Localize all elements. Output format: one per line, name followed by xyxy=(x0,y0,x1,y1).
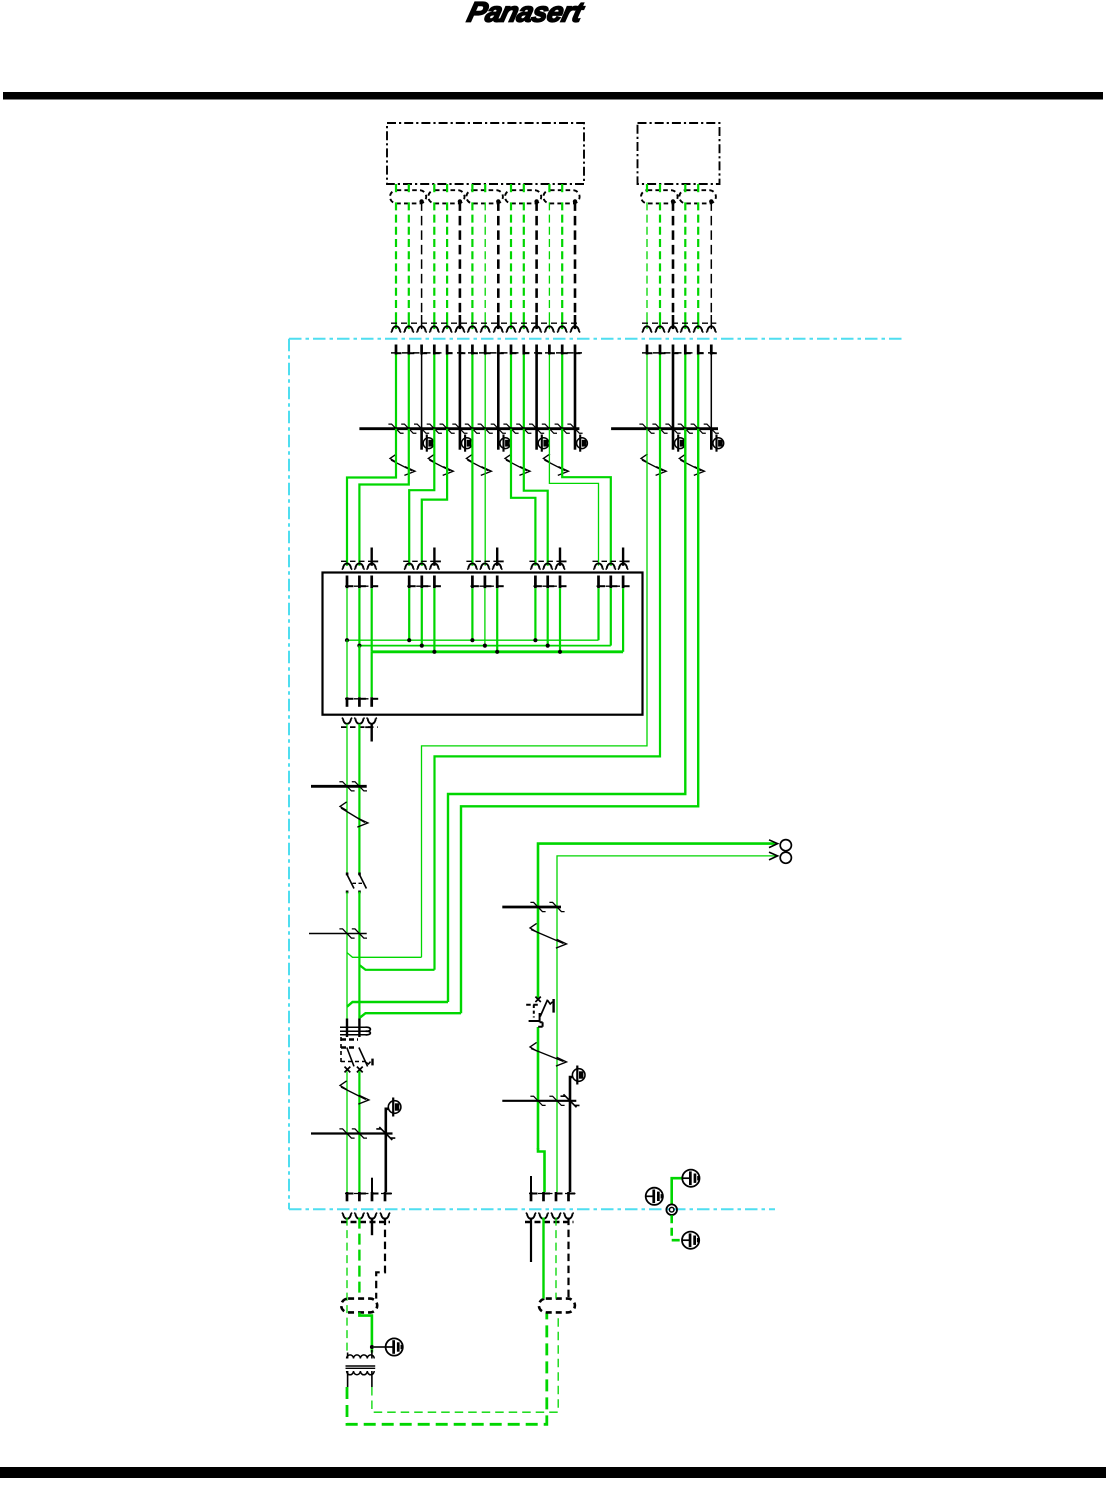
pin w10 below frame border xyxy=(511,345,517,355)
crossing line CL6 xyxy=(502,1100,576,1102)
socket cap w11 at frame border xyxy=(519,326,530,332)
crossing line CL1 left xyxy=(359,427,579,430)
top horizontal rule xyxy=(3,92,1103,100)
box connector group 1 tie dashed xyxy=(341,560,378,562)
pin tie dashed line right xyxy=(642,352,718,354)
harness wire w21 solid segment xyxy=(710,315,712,329)
breaker coil hook xyxy=(366,1027,371,1035)
wire w10 to crossing line xyxy=(510,355,512,429)
pin w9 below frame border xyxy=(498,345,504,355)
wire jog right column xyxy=(538,1148,545,1192)
wire route w2 to box group xyxy=(409,429,434,566)
cable wire L4 (black dashed) xyxy=(376,1218,385,1299)
harness wire w17 dashed segment xyxy=(659,202,661,315)
breaker coil lines xyxy=(340,1027,366,1035)
socket cap w16 at frame border xyxy=(642,326,653,332)
control unit box (dash-dot outline) xyxy=(387,123,584,184)
disconnect switch S2 xyxy=(428,454,453,476)
harness wire w12 solid segment xyxy=(535,315,538,329)
harness wire w14 dashed segment xyxy=(561,202,563,315)
box connector group 5 pins xyxy=(599,576,630,589)
pin w3 below frame border xyxy=(422,345,428,355)
box connector group 1 black stub xyxy=(372,548,379,566)
pin w19 below frame border xyxy=(685,345,691,355)
box connector group 4 black stub xyxy=(560,548,567,566)
box connector group 4 pins xyxy=(535,576,566,589)
solenoid SL2 xyxy=(460,429,472,452)
tick CL5 C xyxy=(530,902,545,911)
breaker x mark A xyxy=(345,1067,351,1073)
box connector group 3 black stub xyxy=(497,548,504,566)
bottom horizontal rule xyxy=(0,1467,1106,1478)
disconnect switch S3 xyxy=(466,454,491,476)
plug oval left (dashed) xyxy=(341,1299,377,1313)
tick at CL1 w16 xyxy=(639,424,654,433)
wire w15 to crossing line xyxy=(574,355,577,429)
wire w11 to crossing line xyxy=(523,355,525,429)
wire route w1 to box group xyxy=(359,429,408,566)
disconnect switch S11 xyxy=(530,1042,567,1066)
box connector group 4 pin tie dashed xyxy=(533,585,567,587)
box wire g3p2 xyxy=(484,588,486,645)
socket cap w10 at frame border xyxy=(506,326,517,332)
breaker contact blade 1 xyxy=(347,1048,354,1067)
pin w14 below frame border xyxy=(562,345,568,355)
transformer T1 core xyxy=(346,1366,376,1368)
contactor contact K1b xyxy=(358,873,366,894)
box connector group 5 pin tie dashed xyxy=(597,585,631,587)
harness wire w11 dashed segment xyxy=(523,202,525,315)
wire w16 to crossing line xyxy=(646,355,648,429)
breaker hook right xyxy=(366,1059,373,1066)
plug oval right (dashed) xyxy=(539,1299,575,1313)
disconnect switch S4 xyxy=(505,454,530,476)
box bottom connector tie dashed xyxy=(345,698,379,700)
tick at CL1 w20 xyxy=(691,424,706,433)
breaker x mark B xyxy=(357,1067,363,1073)
box connector group 2 pins xyxy=(409,576,441,589)
box wire g1p2 xyxy=(358,588,360,645)
disconnect switch S5 xyxy=(543,454,568,476)
solenoid SL5 xyxy=(575,429,587,452)
wire stubs box-to-connector xyxy=(396,184,698,192)
socket cap w14 at frame border xyxy=(557,326,568,332)
tick CL3 B xyxy=(352,929,367,938)
pin w8 below frame border xyxy=(485,345,491,355)
pin w13 below frame border xyxy=(549,345,555,355)
tick CL4 B xyxy=(352,1129,367,1138)
wire w9 to crossing line xyxy=(497,355,500,429)
box wire g5p1 xyxy=(597,588,599,640)
bus0 dot g1 xyxy=(345,638,349,642)
junction dot CN7 xyxy=(709,199,713,203)
tick CL6 C xyxy=(530,1096,545,1105)
feeder wire A mid xyxy=(346,892,348,1019)
junction dot CN2 xyxy=(458,199,462,203)
harness wire w20 solid segment xyxy=(697,315,699,329)
cable wire R4 (black dashed) xyxy=(567,1218,569,1299)
tick at CL1 w15 xyxy=(567,424,582,433)
pin w16 below frame border xyxy=(647,345,653,355)
solenoid SL1 xyxy=(422,429,434,452)
route h3 xyxy=(448,429,685,1002)
harness wire w8 dashed segment xyxy=(484,202,486,315)
earth link lower dashed xyxy=(672,1215,682,1240)
box wire g5p2 xyxy=(610,588,612,645)
box connector group 1 pin tie dashed xyxy=(345,585,379,587)
bottom connector R pins xyxy=(531,1192,575,1201)
contactor link dashed xyxy=(353,882,363,884)
wire w6 to crossing line xyxy=(459,355,462,429)
crossing line CL4 xyxy=(311,1132,393,1134)
Panasert logo xyxy=(464,0,587,28)
bottom connector R stub pin1 xyxy=(530,1176,532,1192)
connector CN4 (dashed oval) xyxy=(505,190,541,203)
tick CL6 D xyxy=(549,1096,564,1105)
earth ground G4 xyxy=(682,1232,699,1249)
wire route w3 to box group xyxy=(422,429,447,566)
harness wire w6 dashed segment xyxy=(459,201,462,315)
crossing line CL1 right xyxy=(611,427,718,430)
box wire g2p3 xyxy=(433,588,435,652)
box bottom connector socket cups xyxy=(342,718,377,724)
bus B xyxy=(359,645,610,647)
breaker wire stubs xyxy=(347,1019,359,1038)
bottom connector L tie dashed xyxy=(345,1193,392,1195)
wire w2 to crossing line xyxy=(408,355,410,429)
harness wire w13 solid segment xyxy=(548,315,550,329)
tick at CL1 w6 xyxy=(452,424,467,433)
wire route w0 to box group xyxy=(347,429,396,566)
harness wire w7 dashed segment xyxy=(471,202,473,315)
tick at CL1 w9 xyxy=(491,424,506,433)
junction dot CN6 xyxy=(671,199,675,203)
junction dot CN1 xyxy=(419,199,423,203)
harness wire w1 dashed segment xyxy=(395,202,397,315)
tie line above frame sockets right xyxy=(642,322,716,324)
harness wire w18 solid segment xyxy=(672,315,675,329)
crossing line CL5 xyxy=(502,906,561,909)
tick at CL1 w14 xyxy=(555,424,570,433)
magnet valve MV2 xyxy=(572,1066,585,1085)
wire route w7 to box group xyxy=(562,429,611,566)
transformer T1 primary winding xyxy=(347,1355,375,1359)
harness wire w20 dashed segment xyxy=(697,202,699,315)
pin w21 below frame border xyxy=(711,345,717,355)
bus1 dot g3 xyxy=(483,644,487,648)
box wire g3p1 xyxy=(471,588,473,640)
output terminal ring 1 xyxy=(780,840,791,851)
bus C (thick) xyxy=(372,650,623,653)
black branch left xyxy=(386,1109,388,1192)
junction dot CN3 xyxy=(496,199,500,203)
frame border bottom (cyan dash-dot) xyxy=(289,1208,775,1210)
cable wire L1 (thin green dashed) xyxy=(346,1218,348,1352)
tap to ground line xyxy=(374,1346,386,1348)
tick at CL1 w1 xyxy=(388,424,403,433)
harness wire w18 dashed segment xyxy=(672,201,675,315)
bottom connector R tie dashed 2 xyxy=(525,1221,574,1223)
pin w17 below frame border xyxy=(660,345,666,355)
harness wire w2 dashed segment xyxy=(408,202,410,315)
output route h5 xyxy=(538,844,776,999)
wire route w6 to box group xyxy=(549,429,598,566)
box connector group 1 pins xyxy=(347,576,378,589)
socket cap w19 at frame border xyxy=(680,326,691,332)
secondary cable thin dashed xyxy=(372,1312,558,1412)
box wire g4p3 xyxy=(559,588,561,652)
junction j2 xyxy=(359,965,434,970)
socket cap w13 at frame border xyxy=(544,326,555,332)
wire w13 to crossing line xyxy=(548,355,550,429)
bus1 dot g2 xyxy=(420,644,424,648)
pin w6 below frame border xyxy=(460,345,466,355)
bus A (thin) xyxy=(347,639,599,641)
harness wire w5 dashed segment xyxy=(446,202,448,315)
bus1 dot g4 xyxy=(546,644,550,648)
disconnect switch S9 xyxy=(340,1081,369,1104)
feeder wire B upper xyxy=(358,724,360,874)
tick at CL1 w17 xyxy=(652,424,667,433)
tick at CL1 w18 xyxy=(665,424,680,433)
wire w18 to crossing line xyxy=(672,355,675,429)
box connector group 1 socket caps xyxy=(342,563,377,569)
box connector group 4 tie dashed xyxy=(529,560,566,562)
relay unit box (solid outline) xyxy=(323,573,643,715)
contactor contact K1a xyxy=(346,873,354,894)
box wire g5p3 xyxy=(622,588,624,652)
box wire g1p1 xyxy=(346,588,348,640)
wire w8 to crossing line xyxy=(484,355,486,429)
tick at CL1 w13 xyxy=(542,424,557,433)
frame border top (cyan dash-dot) xyxy=(289,338,903,340)
tick at CL1 w21 xyxy=(704,424,719,433)
crossing line CL2 xyxy=(311,785,367,788)
harness wire w7 solid segment xyxy=(471,315,473,329)
socket cap w9 at frame border xyxy=(493,326,504,332)
tick CL3 A xyxy=(339,929,354,938)
bottom connector L pins xyxy=(347,1192,392,1201)
output terminal ring 2 xyxy=(780,852,791,863)
tick at CL1 w4 xyxy=(427,424,442,433)
tick CL5 D xyxy=(549,902,564,911)
tick at CL1 w19 xyxy=(678,424,693,433)
box connector group 5 black stub xyxy=(623,548,630,566)
bottom connector L stub pin3 xyxy=(371,1178,373,1192)
socket cap w3 at frame border xyxy=(416,326,427,332)
wire w20 to crossing line xyxy=(697,355,699,429)
wire w12 to crossing line xyxy=(535,355,538,429)
harness wire w16 dashed segment xyxy=(646,202,648,315)
harness wire w8 solid segment xyxy=(484,315,486,329)
pin w12 below frame border xyxy=(537,345,543,355)
box connector group 2 tie dashed xyxy=(403,560,440,562)
harness wire w6 solid segment xyxy=(459,315,462,329)
crossing line CL3 xyxy=(309,933,367,935)
harness wire w4 solid segment xyxy=(433,315,435,329)
pin w20 below frame border xyxy=(698,345,704,355)
pin w11 below frame border xyxy=(524,345,530,355)
solenoid SL7 xyxy=(711,429,723,452)
connector CN7 (dashed oval) xyxy=(679,190,716,203)
aux unit box (dash-dot outline) xyxy=(638,123,720,184)
bottom connector R cups xyxy=(526,1213,574,1219)
box wire g3p3 xyxy=(496,588,498,652)
earth ground G3 xyxy=(646,1188,663,1205)
harness wire w12 dashed segment xyxy=(535,201,538,315)
wire route w4 to box group xyxy=(511,429,535,566)
relay contact K2 xyxy=(526,997,553,1027)
wire route w5 to box group xyxy=(524,429,548,566)
solenoid SL6 xyxy=(673,429,685,452)
tick at CL1 w10 xyxy=(503,424,518,433)
box connector group 2 black stub xyxy=(434,548,441,566)
feeder wire B mid xyxy=(358,892,360,1019)
transformer T1 secondary winding xyxy=(347,1371,375,1375)
tick at CL1 w5 xyxy=(440,424,455,433)
bottom connector L tie dashed 2 xyxy=(341,1221,390,1223)
socket cap w8 at frame border xyxy=(480,326,491,332)
solenoid SL4 xyxy=(537,429,549,452)
box wire g4p1 xyxy=(534,588,536,640)
bus2 dot g2 xyxy=(432,650,436,654)
feeder wire A upper xyxy=(346,724,348,873)
box wire g1p1 lower xyxy=(346,640,348,697)
disconnect switch S10 xyxy=(530,923,567,948)
tick at CL1 w8 xyxy=(478,424,493,433)
box connector group 2 pin tie dashed xyxy=(407,585,441,587)
connector CN3 (dashed oval) xyxy=(466,190,503,203)
bus0 dot g3 xyxy=(470,638,474,642)
tick at CL1 w11 xyxy=(516,424,531,433)
route h1 (thin) xyxy=(422,429,648,958)
harness wire w19 solid segment xyxy=(684,315,686,329)
tick CL6 E xyxy=(561,1094,580,1107)
box wire g2p1 xyxy=(408,588,410,640)
socket cap w4 at frame border xyxy=(429,326,440,332)
wire w14 to crossing line xyxy=(561,355,563,429)
disconnect switch S1 xyxy=(390,454,415,476)
route h4 xyxy=(461,429,698,1014)
box connector group 2 socket caps xyxy=(404,563,440,569)
disconnect switch S8 xyxy=(340,802,368,827)
bottom connector L pin3 stub below xyxy=(371,1218,373,1236)
pin w1 below frame border xyxy=(396,345,402,355)
disconnect switch S6 xyxy=(641,454,666,476)
box connector group 3 pins xyxy=(472,576,503,589)
socket cap w2 at frame border xyxy=(404,326,415,332)
box connector group 5 socket caps xyxy=(593,563,628,569)
tie line above frame sockets left xyxy=(391,322,580,324)
harness wire w10 dashed segment xyxy=(510,202,512,315)
output arrow 2 xyxy=(769,852,778,860)
box connector group 3 socket caps xyxy=(467,563,502,569)
magnet valve MV1 xyxy=(388,1098,401,1117)
socket cap w17 at frame border xyxy=(655,326,666,332)
harness wire w13 dashed segment xyxy=(548,202,550,315)
transformer tap dot xyxy=(370,1345,374,1349)
route h2 xyxy=(435,429,661,970)
socket cap w15 at frame border xyxy=(570,326,581,332)
ground symbol G1 xyxy=(386,1338,403,1355)
earth ground G2 xyxy=(682,1170,699,1187)
junction j4 xyxy=(359,1013,461,1018)
tick CL4 A xyxy=(339,1129,354,1138)
box connector group 3 pin tie dashed xyxy=(470,585,504,587)
harness wire w10 solid segment xyxy=(510,315,512,329)
cable wire R1 (black) xyxy=(530,1218,532,1262)
harness wire w17 solid segment xyxy=(659,315,661,329)
bus2 dot g4 xyxy=(558,650,562,654)
pin tie dashed line left xyxy=(391,352,582,354)
cable wire R3 (thin green dashed) xyxy=(555,1218,557,1299)
junction j3 xyxy=(347,1002,448,1007)
socket cap w20 at frame border xyxy=(693,326,704,332)
wire w19 to crossing line xyxy=(684,355,686,429)
bottom connector L cups xyxy=(342,1213,391,1219)
socket cap w21 at frame border xyxy=(706,326,717,332)
box bottom black stub xyxy=(365,724,372,742)
secondary cable thick dashed xyxy=(347,1312,547,1424)
output route h6 xyxy=(557,856,776,1192)
frame border left (cyan dash-dot) xyxy=(288,339,290,1209)
box connector group 5 tie dashed xyxy=(593,560,630,562)
bottom connector R tie dashed xyxy=(529,1193,576,1195)
box wire g2p2 xyxy=(421,588,423,645)
cable wire L2 (green dashed) xyxy=(358,1218,360,1299)
harness wire w3 solid segment xyxy=(421,315,423,329)
solenoid SL3 xyxy=(498,429,510,452)
tick CL2 B xyxy=(352,782,367,791)
black branch right xyxy=(570,1077,572,1192)
tick at CL1 w3 xyxy=(414,424,429,433)
wire w4 to crossing line xyxy=(433,355,435,429)
output arrow 1 xyxy=(769,840,778,848)
pin w7 below frame border xyxy=(472,345,478,355)
junction dot CN4 xyxy=(534,199,538,203)
harness wire w1 solid segment xyxy=(395,315,397,329)
junction j1 xyxy=(347,953,422,958)
tick at CL1 w12 xyxy=(529,424,544,433)
box connector group 4 socket caps xyxy=(530,563,565,569)
box connector group 3 tie dashed xyxy=(466,560,503,562)
svg-text:Panasert: Panasert xyxy=(464,0,587,28)
box wire g1p2 lower xyxy=(358,646,360,698)
pin w18 below frame border xyxy=(673,345,679,355)
tick CL4 C xyxy=(376,1127,395,1140)
harness wire w9 solid segment xyxy=(497,315,500,329)
bus0 dot g4 xyxy=(533,638,537,642)
transformer feed jog xyxy=(359,1312,372,1352)
junction dot CN5 xyxy=(573,199,577,203)
earth link upper xyxy=(672,1178,683,1204)
connector CN5 (dashed oval) xyxy=(543,190,579,203)
tick at CL1 w2 xyxy=(401,424,416,433)
box wire g1p3 lower xyxy=(371,652,373,698)
feeder wire B lower xyxy=(358,1071,360,1192)
harness wire w19 dashed segment xyxy=(684,202,686,315)
wire w17 to crossing line xyxy=(659,355,661,429)
box wire g4p2 xyxy=(547,588,549,645)
harness wire w9 dashed segment xyxy=(497,201,500,315)
feeder wire A lower xyxy=(346,1071,348,1192)
pin w2 below frame border xyxy=(409,345,415,355)
cable wire R2 (green) xyxy=(542,1218,544,1299)
bus2 dot g3 xyxy=(495,650,499,654)
socket cap w6 at frame border xyxy=(455,326,466,332)
harness wire w2 solid segment xyxy=(408,315,410,329)
harness wire w11 solid segment xyxy=(523,315,525,329)
